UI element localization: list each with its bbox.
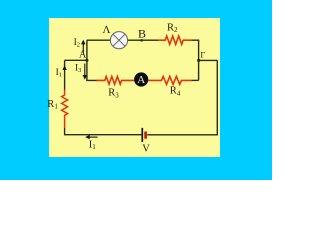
svg-text:A: A <box>137 74 145 86</box>
wire left rail lower + bottom to battery <box>65 128 142 135</box>
svg-text:B: B <box>138 27 146 41</box>
current arrow I1 (up, on left rail) <box>62 65 66 70</box>
current arrow I1 bottom (left) <box>85 135 97 139</box>
wire R4 end to right inner vertical <box>191 79 198 81</box>
wire battery to right rail and up to gamma junction <box>147 60 217 134</box>
resistor R3 body <box>97 77 135 85</box>
svg-text:I3: I3 <box>75 64 81 75</box>
svg-text:R4: R4 <box>170 86 181 98</box>
svg-text:R1: R1 <box>47 99 58 111</box>
svg-text:R3: R3 <box>108 88 119 100</box>
wire top-left horizontal (lamp feed) <box>87 39 111 41</box>
ammeter A symbol <box>134 72 148 86</box>
wire node A horizontal to left rail <box>65 59 87 61</box>
svg-text:V: V <box>142 144 150 155</box>
wire R2 to right inner corner and down <box>191 40 198 80</box>
resistor R1 body (vertical) <box>62 90 68 128</box>
node B junction dot <box>140 39 143 42</box>
node Γ junction dot <box>197 59 200 62</box>
wire lamp to R2 <box>128 39 158 41</box>
current arrow I2 (up) <box>81 40 85 53</box>
current arrow I3 (down) <box>83 64 87 80</box>
lamp Λ symbol <box>110 32 127 49</box>
wire left rail upper part <box>64 60 66 90</box>
wire gamma junction horizontal <box>199 59 218 61</box>
battery V symbol <box>142 128 145 142</box>
svg-text:A: A <box>79 49 87 60</box>
svg-text:I1: I1 <box>89 139 97 151</box>
svg-text:R2: R2 <box>167 22 178 34</box>
svg-text:I2: I2 <box>74 38 80 49</box>
resistor R2 body <box>158 36 191 44</box>
svg-text:Γ: Γ <box>200 50 205 60</box>
resistor R4 body <box>148 76 191 84</box>
svg-text:I1: I1 <box>56 68 62 79</box>
node A junction dot <box>85 59 88 62</box>
wire left mid vertical through node A down to lower branch <box>87 40 98 80</box>
svg-text:Λ: Λ <box>103 24 111 36</box>
